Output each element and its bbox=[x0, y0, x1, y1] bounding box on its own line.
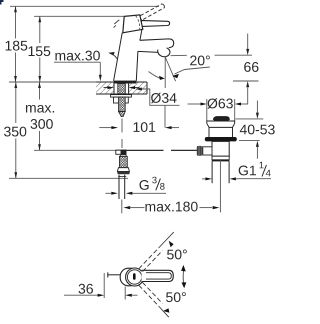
+50 leader arrow bbox=[169, 241, 174, 248]
extension line deck level left bbox=[9, 81, 96, 83]
faucet lever (solid) bbox=[139, 20, 169, 26]
faucet body bbox=[114, 30, 142, 81]
dimension 350 bbox=[15, 82, 17, 178]
pop-up rod bbox=[116, 149, 164, 151]
dimension 101 bbox=[99, 127, 111, 129]
aerator bbox=[158, 47, 170, 57]
rod knurled connector bbox=[197, 146, 203, 156]
dimension max.180 bbox=[123, 206, 130, 209]
dimension 185 bbox=[15, 6, 17, 82]
extension line hose end level (350) bbox=[9, 177, 128, 179]
lever swing dashes left of cartridge bbox=[114, 20, 120, 28]
spout (white body overlaying aerator top) bbox=[139, 39, 174, 51]
dimension Ø63 bbox=[188, 103, 202, 105]
dimension max.300 bbox=[39, 82, 41, 150]
20 deg leader bbox=[175, 67, 210, 74]
rod connector stub bbox=[203, 147, 212, 155]
centerline below shank bbox=[121, 119, 123, 133]
G1 1/4 left arrow bbox=[202, 178, 206, 180]
deck slab bbox=[96, 82, 114, 94]
36 right extension at spout-stub axis bbox=[124, 287, 126, 300]
extension line top (lever tip level) bbox=[10, 5, 159, 7]
label G1 1/4 bbox=[239, 166, 256, 176]
spout stub (top view) bbox=[120, 268, 138, 286]
drain shoulder bbox=[212, 156, 229, 160]
drain tailpipe bbox=[211, 161, 213, 183]
hose pipe bbox=[118, 175, 120, 199]
blue corner mark bbox=[0, 0, 4, 5]
extension line lever level bbox=[34, 15, 124, 17]
hose collar nut bbox=[117, 168, 129, 172]
washer bbox=[111, 95, 132, 98]
hose T-junction bbox=[116, 150, 121, 154]
cartridge dome dashed bbox=[136, 16, 140, 31]
hose centerline lower bbox=[121, 200, 123, 214]
faucet raised lever (phantom dashes) bbox=[141, 4, 165, 20]
dimension G 3/8 bbox=[140, 180, 149, 190]
mounting nut bbox=[114, 97, 129, 103]
dimension 40-53 bbox=[236, 118, 264, 120]
body circle inner bbox=[127, 270, 141, 284]
swing double arrow bbox=[182, 268, 185, 286]
drain locking ring (black band) bbox=[205, 137, 237, 141]
body circle outer bbox=[126, 268, 144, 286]
20 deg spout angle: vertical leg bbox=[164, 57, 166, 88]
drain flange bbox=[207, 121, 235, 127]
lever bar top view bbox=[142, 270, 174, 281]
extension line rod level left (max.300) bbox=[34, 149, 116, 151]
label Ø34 with leader bbox=[135, 88, 142, 91]
label max.30 with leader bbox=[55, 51, 100, 61]
flow arrow left of body bbox=[108, 52, 114, 56]
deck level extension right bbox=[233, 80, 259, 82]
spout level extension line bbox=[171, 54, 187, 56]
drain plug cap bbox=[213, 116, 230, 121]
lever neck bbox=[136, 19, 141, 27]
cartridge head bbox=[123, 15, 143, 33]
dimension 155 bbox=[39, 16, 41, 82]
threaded shank through deck bbox=[118, 84, 126, 94]
base band bbox=[114, 81, 137, 84]
hose threaded top bbox=[120, 155, 127, 157]
drain body bbox=[212, 141, 229, 156]
20 deg slanted leg bbox=[165, 57, 175, 81]
outlet pin bbox=[108, 274, 121, 276]
deck hole arrows bbox=[104, 87, 112, 89]
-50 leader arrow bbox=[163, 308, 169, 313]
phantom lever +50 (dashes up-right) bbox=[139, 247, 163, 272]
lever slot bbox=[133, 273, 136, 280]
101 right extension (from Ø34 underline) bbox=[164, 105, 166, 127]
phantom lever -50 (dashes down-right) bbox=[139, 282, 163, 307]
dimension 36 bbox=[79, 284, 94, 294]
drain centerline bbox=[219, 160, 221, 212]
dimension 66 bbox=[247, 34, 249, 50]
20 deg arc with arrows bbox=[149, 72, 162, 79]
shank tip bbox=[119, 112, 126, 117]
threaded rod below nut bbox=[119, 97, 126, 111]
